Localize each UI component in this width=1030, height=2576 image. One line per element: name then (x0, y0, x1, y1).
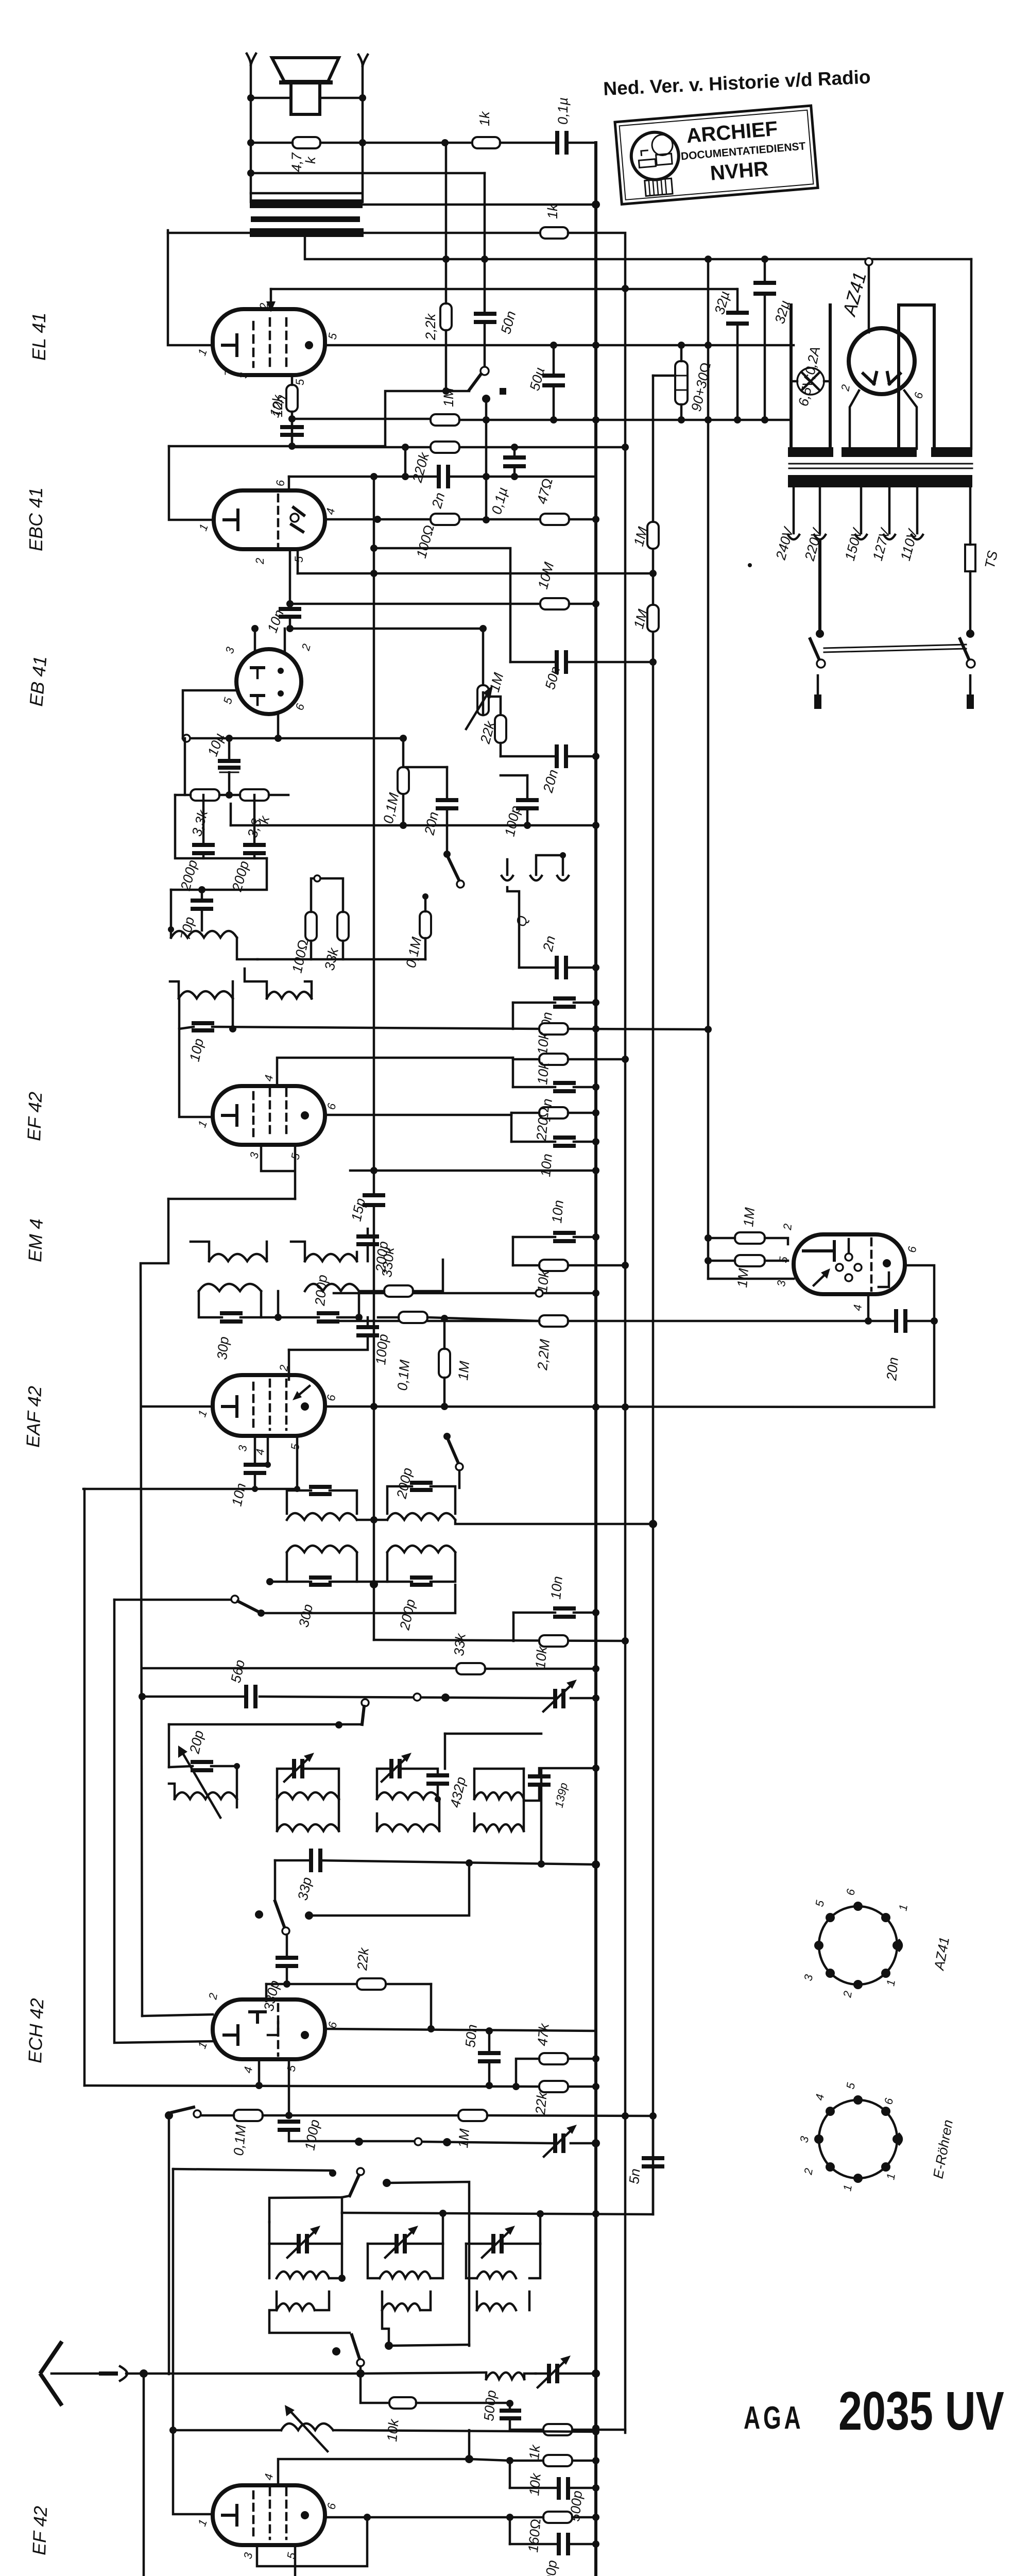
wire 50n leads (484, 173, 486, 367)
tap hooks (788, 535, 923, 539)
svg-text:220Ω: 220Ω (534, 1106, 552, 1142)
plug/socket pair (101, 2371, 116, 2376)
capacitor 2n series row1878 (557, 958, 566, 977)
EL41 grid arrow (270, 289, 272, 308)
switch S-fb contact (480, 367, 489, 375)
wire coil right down (237, 938, 257, 959)
resistor 22k (ECH42) (539, 2081, 568, 2092)
svg-text:10k: 10k (535, 1061, 552, 1085)
capacitor 10p (194, 1023, 212, 1030)
EB41 diode plates (251, 668, 264, 696)
wire 5n on B3 (652, 2116, 655, 2214)
wire tankA row 2955 (357, 1519, 387, 1521)
switch S-e (165, 2111, 173, 2120)
node (288, 415, 296, 422)
resistor 33k vertical (337, 912, 349, 941)
node (441, 139, 449, 146)
EF42rf anode dot (301, 2511, 309, 2519)
coil L2a (377, 1792, 439, 1799)
wire row y925 (289, 476, 486, 478)
wire 500p-1 leads (509, 2403, 511, 2430)
wire pin5 stub (297, 549, 299, 573)
wire 0,1u leads (513, 447, 516, 477)
wire osc bottom left (269, 2310, 350, 2333)
node B2 top (622, 285, 629, 292)
wire 50n leads (488, 2031, 491, 2086)
svg-text:1M: 1M (741, 1207, 758, 1227)
trimmer (AVC row) (555, 1691, 563, 1706)
wire row 3293 (142, 1697, 596, 1698)
wire AZ41 pin6 down (904, 391, 917, 449)
wire row 4712 (1k) (510, 2429, 625, 2431)
ECH42 cathode (224, 2026, 238, 2044)
resistor 100ohm vertical (305, 912, 317, 941)
wire 432p bottom (437, 1784, 439, 1799)
switch link (824, 645, 966, 652)
wire row 4553 (385, 2342, 393, 2350)
resistor 10k L2 (539, 1054, 568, 1065)
wire 10k L4 row (513, 1264, 625, 1267)
wire row 4295 (342, 2213, 653, 2214)
wire 90+30 leads (678, 342, 685, 349)
resistor 1k (top) (472, 137, 500, 148)
resistor 1M (EM4 no2) (735, 1255, 765, 1266)
wire 330k row (359, 1260, 443, 1291)
svg-text:20n: 20n (884, 1357, 901, 1382)
coil osc1b (277, 2303, 315, 2310)
svg-text:2,2M: 2,2M (535, 1338, 553, 1371)
wire row 1997 (179, 1027, 540, 1029)
ECH42 grids dashes (277, 2004, 280, 2056)
resistor 0,1M (IF2) (399, 1312, 427, 1323)
resistor 100 ohm (431, 514, 459, 525)
wire x748 up to 2,2k row (385, 391, 469, 446)
switch S-g (352, 2335, 359, 2359)
inductor tankB1 (287, 1546, 357, 1552)
wire coil tops (170, 969, 312, 998)
svg-text:EF 42: EF 42 (28, 2506, 51, 2556)
svg-text:10k: 10k (535, 1031, 552, 1055)
wire 990 loop down2 (509, 2517, 511, 2544)
svg-text:47k: 47k (535, 2022, 552, 2046)
wire rail 222 down (114, 1600, 213, 2043)
capacitor 20n (EM4) (896, 1311, 905, 1331)
node (247, 94, 254, 101)
node (592, 200, 600, 209)
resistor 220ohm (539, 1107, 568, 1118)
node (761, 256, 768, 263)
wire pin4 row y1008 (325, 518, 540, 521)
EAF42 grid dashes (253, 1380, 286, 1430)
capacitor 20n vertical (det) (438, 800, 456, 808)
capacitor 100p (osc) (280, 2122, 298, 2130)
wire row y1433 (183, 737, 403, 740)
EM4 electrodes (803, 1242, 834, 1260)
svg-text:0,1µ: 0,1µ (555, 97, 571, 125)
wire 100p leads (526, 775, 529, 825)
svg-text:3: 3 (237, 372, 250, 379)
wire speaker left lead (250, 65, 252, 202)
coil osc2a (380, 2272, 431, 2278)
trimmer osc2 (397, 2236, 405, 2251)
wire EM4 pin6 (905, 1265, 934, 1407)
capacitor 10n (EBC41 g) (281, 609, 299, 617)
wire right rail (970, 259, 973, 449)
wire 160 row (510, 2516, 596, 2519)
capacitor 33p series (311, 1851, 320, 1870)
wire row 4938 (510, 2543, 596, 2546)
node (761, 416, 768, 423)
tube EBC41 (214, 490, 325, 549)
frame L3a (474, 1769, 524, 1799)
wire row 1543 (175, 794, 288, 796)
wire pin1 row (142, 1405, 213, 1408)
wire L2b frame (377, 1799, 439, 1831)
coil L2b (377, 1824, 439, 1831)
wire blade to 330p (286, 1935, 288, 1958)
svg-text:0,1M: 0,1M (231, 2124, 249, 2157)
resistor 1M (osc) (458, 2110, 487, 2121)
wire pin4 stub and row 2053 (277, 1058, 513, 1086)
inductor tankA2 (387, 1513, 455, 1520)
wire tankB middle junction (357, 1581, 387, 1583)
wire row y1172 (290, 603, 540, 605)
node (550, 342, 557, 349)
capacitor 500p no1 (502, 2411, 519, 2418)
capacitor tankA1 top (20p) (311, 1487, 330, 1494)
resistor 33k (456, 1663, 485, 1674)
resistor 10k L4 (539, 1260, 568, 1271)
tube EF42 (RF) (213, 2485, 325, 2545)
switch S-pu (443, 851, 451, 858)
wire 10k L2 row (513, 1058, 625, 1061)
wire row y925 to B1 (486, 476, 596, 478)
wire 200p stubs (203, 795, 254, 858)
tank B1 frame (287, 1552, 357, 1582)
svg-text:200p: 200p (312, 1274, 330, 1307)
tank A1 frame (287, 1490, 357, 1514)
wire 100p leads (289, 1317, 368, 1350)
trimmer osc1 (299, 2236, 307, 2251)
socket AZ41 (814, 1902, 902, 1989)
connector link (414, 1693, 421, 1701)
wire row y866 (169, 445, 385, 448)
wire pot bottom to 22k (482, 692, 485, 715)
wire 10n L3 row (511, 1141, 596, 1143)
svg-text:k: k (303, 156, 318, 164)
B1 main HT bus (594, 143, 597, 2576)
B4 bus (707, 259, 710, 1279)
wire x355 . (170, 929, 173, 938)
trimmer ant (549, 2366, 557, 2381)
wire left down to coil (170, 890, 173, 929)
capacitor 5n (644, 2158, 662, 2166)
wire y336 feedback row (251, 172, 485, 175)
svg-text:1k: 1k (477, 111, 492, 126)
resistor 1M vertical (EAF42 g) (439, 1349, 450, 1378)
wire EL41 cathode row y670 (325, 344, 794, 347)
capacitor tankB1 bot (30p) (311, 1578, 330, 1585)
svg-text:EL 41: EL 41 (28, 313, 49, 361)
wire pin4 pin5 stubs (268, 1436, 297, 1489)
wire pin4 stub (258, 2059, 261, 2086)
wire row y1113 (298, 572, 653, 575)
pilot lamp La (797, 368, 824, 395)
wire 10n L1 row (513, 1002, 596, 1004)
wire pin6 row 2164 (325, 1114, 511, 1116)
capacitor 200p mid (319, 1313, 337, 1321)
wire pin6 stub (288, 477, 290, 490)
coil L3a (474, 1792, 524, 1799)
resistor 2,2M (539, 1315, 568, 1327)
wire stub 787 (404, 447, 407, 477)
svg-text:10k: 10k (533, 1645, 550, 1669)
wire row 3851 (266, 1983, 431, 1986)
wire speaker top bus (251, 97, 363, 99)
capacitor 200p no2 (245, 845, 264, 853)
capacitor 32u no1 (728, 313, 747, 324)
wire pot top (479, 625, 487, 632)
wire row 1666 (175, 795, 267, 858)
wire row 4237 (383, 2179, 391, 2187)
wire 30p row (199, 1291, 278, 1317)
coil L1a (277, 1792, 339, 1799)
vertical x783 0,1M chain (402, 738, 405, 825)
svg-text:22k: 22k (533, 2091, 550, 2115)
capacitor 500p no3 (559, 2535, 568, 2553)
wire lamp winding stubs (791, 305, 830, 449)
wire L1b frame (277, 1799, 339, 1831)
svg-text:10n: 10n (538, 1153, 555, 1178)
switch S-d (255, 1910, 263, 1919)
svg-text:6: 6 (274, 480, 287, 486)
wire antenna row 4607 (126, 2372, 486, 2374)
wire stub x359 (184, 738, 186, 795)
svg-text:EBC 41: EBC 41 (25, 487, 46, 551)
wire 22k right up to pin6 row (430, 1984, 433, 2029)
wire row 2327 (168, 1198, 295, 1200)
wire left chain down (141, 1199, 168, 2016)
wire B-left to bottom corner (144, 2374, 170, 2576)
wire 220ohm row joins pin6 (511, 1113, 596, 1115)
wire row 4215 (173, 2169, 333, 2171)
svg-text:50n: 50n (462, 2024, 480, 2048)
wire row 1602 (231, 824, 596, 827)
capacitor 500p no2 (559, 2479, 568, 2498)
resistor 1k (second) (540, 227, 568, 239)
fuse TS (965, 545, 975, 571)
speck (748, 563, 752, 567)
svg-text:2n: 2n (540, 935, 558, 954)
resistor 2,2k vertical (440, 303, 452, 330)
wire 1M to right (459, 419, 791, 421)
capacitor 10n L1 (555, 998, 574, 1007)
wire row 4829 (510, 2487, 596, 2489)
capacitor 50n (ECH42) (480, 2053, 499, 2061)
wire 1k2 to B2 corner (568, 233, 625, 289)
terminal Q hooks (502, 876, 569, 880)
wire row 4106 (201, 2114, 458, 2117)
svg-text:330k: 330k (379, 1246, 397, 1278)
wire 10M to B1 (569, 603, 596, 605)
switch Sa1 (816, 630, 824, 638)
wire 10n L2 row (513, 1086, 596, 1089)
svg-text:100p: 100p (373, 1333, 391, 1365)
capacitor 70p (193, 901, 211, 909)
node (705, 416, 712, 423)
svg-text:1M: 1M (455, 2128, 472, 2148)
wire to pins (765, 1238, 788, 1261)
capacitor 50u electrolytic (544, 376, 563, 385)
svg-text:2035 UV: 2035 UV (838, 2381, 1004, 2442)
wire 1k to 0,1u (500, 142, 555, 144)
wire osc2 bottom stub (382, 2310, 389, 2346)
wire pins 3/5 bottom (257, 2517, 367, 2566)
resistor 4,7k (293, 137, 320, 148)
switch S-fb open terminal mark (500, 388, 506, 395)
wire row 3611 (275, 1860, 596, 1865)
wire 10n bottom (254, 1473, 256, 1489)
capacitor 20n series row1468 (557, 747, 566, 766)
EAF42 cathode (222, 1397, 237, 1416)
resistor 1M vert on B3 (647, 522, 659, 549)
coil osc1a (277, 2272, 329, 2278)
EF42 anode dot (301, 1111, 309, 1120)
EBC41 grid dashes (277, 495, 280, 546)
node (442, 256, 450, 263)
capacitor 15p series on B0 (365, 1195, 383, 1205)
svg-text:EM 4: EM 4 (24, 1218, 47, 1262)
wire pin6 row 3938 (325, 2029, 596, 2031)
trimmer osc3 (493, 2236, 502, 2251)
wire 32u1 leads (736, 289, 739, 420)
wire row 1489 to 20n2 (403, 766, 447, 769)
switch blade S-c (362, 1706, 364, 1724)
node (483, 516, 490, 523)
B3 bus (652, 376, 655, 2214)
resistor 10k (bottom) (543, 2455, 572, 2466)
node (247, 139, 254, 146)
EL41 anode dot pin5 (305, 341, 313, 349)
resistor 0,1M vertical no2 (420, 911, 431, 938)
wire 22k bottom to 20n row (500, 743, 502, 756)
wire AZ41 pin2 down (850, 391, 859, 449)
B2 bus (624, 289, 627, 2433)
wire 2,2k leads (445, 143, 448, 391)
svg-text:2,2k: 2,2k (423, 313, 438, 341)
svg-text:1k: 1k (545, 204, 560, 219)
capacitor 10n series (AVC) (555, 1608, 574, 1617)
node (483, 416, 490, 423)
svg-text:7: 7 (222, 369, 235, 376)
wire 330p to node (286, 1966, 288, 1984)
svg-text:5: 5 (293, 556, 305, 563)
coil L3b (474, 1824, 524, 1831)
resistor 330k (384, 1285, 413, 1297)
node (359, 94, 366, 101)
wire 0,1M2 leads (424, 896, 427, 959)
capacitor 2n series (439, 467, 448, 486)
switch blade S-b (238, 1601, 261, 1613)
inductor L-det (171, 931, 237, 938)
wire row 1862 (257, 958, 425, 961)
resistor 10k (AVC) (539, 1635, 568, 1647)
antenna A (41, 2343, 61, 2404)
inductor IF1a (179, 991, 233, 998)
node (359, 139, 366, 146)
EL41 grid dashes (253, 318, 286, 367)
resistor 220k (431, 442, 459, 453)
tank B2 frame (387, 1552, 455, 1582)
EF42rf cathode (222, 2505, 237, 2525)
wire 47ohm to B1 (569, 518, 596, 521)
resistor 0,1M vertical (398, 767, 409, 794)
wire OT bottom to left (168, 232, 251, 234)
capacitor 32u no2 (756, 283, 774, 294)
resistor 10M (540, 598, 569, 609)
svg-text:10n: 10n (549, 1199, 566, 1224)
wire 32u2 leads (764, 259, 766, 420)
tube ECH42 (213, 1999, 325, 2059)
frame T1 (277, 1769, 339, 1799)
resistor 1M horizontal (431, 414, 459, 426)
transformer T2 primary bar (788, 475, 972, 487)
ECH42 grid1 (250, 2012, 265, 2022)
wire Q stubs (507, 855, 563, 875)
EF42 grid dashes (253, 1089, 286, 1139)
node (442, 387, 450, 395)
wire osc coil row a (269, 2222, 540, 2278)
wire row 3718 (309, 1863, 469, 1916)
wire 1M to B3 (487, 2115, 653, 2116)
EAF42 anode dot (301, 1402, 309, 1411)
svg-text:1M: 1M (455, 1360, 472, 1381)
wire 33k row 3239 (142, 1667, 456, 1670)
capacitor 100p vertical (518, 800, 537, 808)
wire 10n to row1220 (289, 617, 291, 629)
capacitor 200p no1 (194, 845, 213, 853)
transformer T2 core lines (789, 464, 972, 468)
wire row 4717 (173, 2430, 596, 2432)
wire pin5 to left (183, 690, 237, 738)
wire antenna lead (51, 2372, 100, 2375)
resistor 12k vertical (286, 385, 298, 412)
output transformer T1 core (250, 193, 364, 237)
coil osc2b (382, 2303, 420, 2310)
svg-text:500p: 500p (542, 2560, 560, 2576)
wire osc coil row b frames (277, 2292, 529, 2310)
tube EL41 (213, 309, 325, 375)
resistor 10k (ant) (389, 2397, 416, 2409)
svg-text:10n: 10n (548, 1575, 565, 1600)
resistor 0,1M (osc) (234, 2110, 263, 2121)
svg-text:33k: 33k (451, 1632, 469, 1656)
wire pin5 down to coil (294, 2545, 297, 2576)
wire lamp row (791, 380, 830, 383)
capacitor 50n vertical series on x941 (476, 314, 494, 322)
wire 100ohm/33k bottoms (311, 941, 343, 959)
capacitor 56p series (246, 1687, 255, 1706)
EL41 cathode electrode (222, 335, 237, 355)
wire IF2 top frame (191, 1229, 368, 1261)
wire B-left lower segment (168, 2115, 170, 2374)
mains terminal right (969, 675, 972, 696)
EF42rf grid dashes (253, 2488, 286, 2539)
capacitor 100p (IF2) (358, 1327, 377, 1335)
EBC41 diode plates (291, 507, 304, 532)
wire 10n L4 row (513, 1236, 596, 1239)
tube EAF42 (213, 1375, 325, 1436)
